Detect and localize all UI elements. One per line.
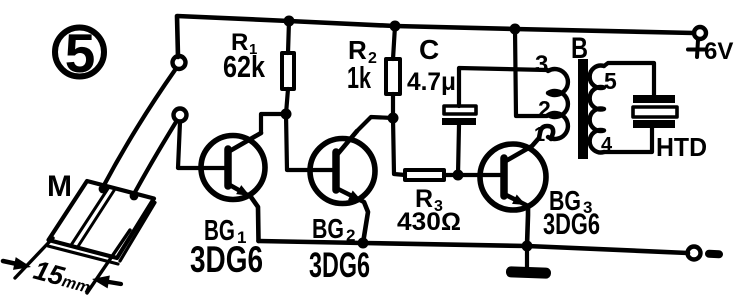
transistor BG2 — [310, 131, 375, 243]
node: R2 top junction — [390, 21, 401, 32]
wire: R2 bottom to R3 — [393, 118, 405, 175]
svg-text:6V: 6V — [704, 38, 733, 65]
wire: R2 bottom node to BG2 collector — [357, 113, 399, 132]
+6V terminal — [688, 27, 733, 65]
node: BG2 emitter junction — [358, 238, 369, 249]
sensor M plate — [48, 181, 155, 264]
svg-text:1k: 1k — [347, 60, 372, 95]
node: BG3 base junction — [453, 170, 464, 181]
ground — [506, 246, 551, 279]
transistor BG3 — [480, 126, 553, 246]
svg-text:1: 1 — [534, 124, 545, 146]
dimension 15mm — [3, 230, 130, 299]
node: transformer feed junction — [510, 24, 521, 35]
svg-text:15mm: 15mm — [30, 255, 94, 299]
resistor R3 — [405, 170, 444, 180]
figure number 5 — [55, 22, 104, 84]
piezo transducer HTD — [633, 95, 677, 128]
top supply bus wire — [177, 16, 694, 57]
wire: base node to BG3 — [458, 173, 500, 177]
svg-text:3: 3 — [535, 51, 548, 78]
svg-text:BG: BG — [312, 213, 344, 244]
svg-text:3DG6: 3DG6 — [190, 239, 263, 280]
svg-text:430Ω: 430Ω — [397, 208, 461, 236]
wire: R3 to BG3 base node — [444, 173, 458, 177]
resistor R1 — [282, 21, 294, 114]
svg-text:HTD: HTD — [656, 132, 707, 162]
bottom rail wire — [259, 241, 689, 253]
resistor R2 — [386, 26, 400, 118]
capacitor C — [442, 68, 547, 175]
transformer B secondary winding — [590, 66, 604, 153]
wire: upper terminal to sensor electrode — [103, 70, 175, 187]
transformer B core — [578, 59, 588, 159]
transformer B primary winding — [547, 69, 568, 139]
node: R1 top junction — [284, 16, 295, 27]
svg-text:B: B — [571, 32, 588, 65]
svg-text:5: 5 — [65, 22, 96, 84]
wire: secondary top to HTD — [604, 63, 654, 95]
output terminal — [688, 247, 724, 260]
svg-text:C: C — [419, 34, 439, 65]
svg-text:3DG6: 3DG6 — [543, 208, 600, 241]
svg-text:4.7μ: 4.7μ — [407, 68, 456, 96]
wire: BG1 base — [178, 122, 226, 168]
wire: R1 bottom node to BG1 collector and BG2 base — [261, 109, 333, 171]
svg-text:62k: 62k — [223, 49, 266, 84]
node: BG3 emitter / ground junction — [522, 241, 533, 252]
transistor BG1 — [201, 133, 265, 241]
svg-text:M: M — [47, 170, 72, 203]
svg-text:3DG6: 3DG6 — [309, 246, 370, 285]
svg-text:2: 2 — [538, 96, 551, 122]
wire: secondary bottom to HTD — [604, 128, 652, 152]
wire: lower terminal to sensor electrode — [134, 122, 176, 194]
wire: supply to transformer tap 2 — [515, 29, 547, 116]
sensor electrode dot upper — [99, 185, 108, 194]
terminal upper (to sensor) — [173, 56, 186, 69]
svg-text:5: 5 — [604, 68, 617, 94]
terminal lower (to sensor) — [174, 109, 187, 122]
sensor electrode dot lower — [130, 192, 139, 201]
